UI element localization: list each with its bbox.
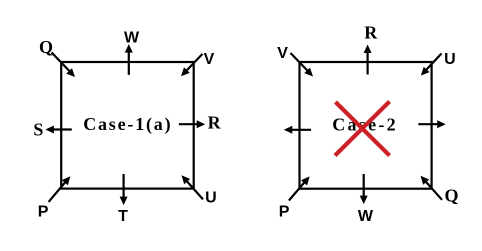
svg-text:U: U [444,51,456,68]
arrow at corner Q (faces centre) [421,176,443,200]
svg-text:V: V [204,51,215,68]
svg-text:W: W [124,30,140,47]
arrow at corner V (faces centre) [291,53,314,77]
arrow at W (faces outward, up) [125,44,133,75]
arrow at T (faces outward, down) [120,174,128,205]
arrow at corner V (faces centre) [181,54,203,76]
svg-text:U: U [205,189,217,206]
red cross stroke (TR to BL) over Case-2 [335,102,390,156]
svg-text:V: V [277,45,288,62]
svg-text:Case-1(a): Case-1(a) [83,114,172,135]
left square (Case-1(a)) [61,62,194,189]
arrow at S (faces outward, left) [45,126,71,134]
svg-text:R: R [364,22,378,42]
arrow at corner P (faces centre) [49,176,71,202]
arrow at corner P (faces centre) [289,176,310,200]
arrow at R (faces outward, right) [179,120,205,128]
arrow at R (faces outward, up) [364,45,372,75]
arrow at corner U (faces centre) [182,175,204,199]
arrow at corner U (faces centre) [421,54,442,76]
svg-text:Q: Q [445,185,459,205]
right edge arrow (faces outward, unlabeled) [418,120,445,128]
svg-text:S: S [33,119,43,139]
arrow at W (faces outward, down) [360,174,368,204]
svg-text:T: T [118,208,128,225]
red cross stroke (TL to BR) over Case-2 [336,102,390,156]
svg-text:P: P [279,204,290,221]
svg-text:R: R [208,112,222,132]
svg-text:P: P [38,204,49,221]
svg-text:Q: Q [39,37,53,57]
svg-text:W: W [358,208,374,225]
left edge arrow (faces outward, unlabeled) [284,126,311,134]
arrow at corner Q (faces centre) [52,52,76,77]
right square (Case-2) [300,62,432,189]
